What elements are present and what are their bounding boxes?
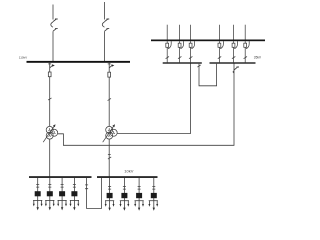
feeder F8 center stem (153, 201, 155, 208)
feeder F4 center stem (73, 200, 75, 207)
disconnector tick T2 column (108, 63, 111, 65)
wire T2 MV branch riser A to 35kV left bus (117, 64, 190, 134)
feeder F5 trident bar (105, 200, 114, 202)
feeder F7 arrowheads (134, 204, 136, 207)
transformer T2 LV winding (106, 132, 113, 139)
flag arrowhead T2 (111, 64, 114, 66)
feeder F7 side legs (135, 201, 143, 205)
wire incoming line L2 upper (104, 2, 106, 20)
feeder F6 breaker cartridge (121, 193, 127, 198)
breaker box QF2 (108, 72, 111, 77)
svg-text:35kV: 35kV (254, 56, 262, 60)
disconnector blade riser B (234, 67, 239, 70)
feeder F1 contact dashes (36, 184, 39, 187)
35kV bay 5 breaker box (232, 43, 235, 47)
35kV bay 5 feeder stub (233, 25, 235, 40)
feeder F3 side legs (58, 200, 66, 204)
disconnector QS4 blade bottom (105, 29, 110, 32)
feeder F5 contact dashes (108, 186, 111, 189)
feeder F2 breaker cartridge (47, 191, 53, 196)
wire incoming line L1 upper (52, 5, 54, 20)
CT tick T2 column (108, 98, 111, 100)
feeder F1 breaker cartridge (35, 191, 41, 196)
feeder F7 trident bar (135, 200, 144, 202)
wire T1 LV to 10kV bus (49, 139, 51, 176)
feeder F1 trident bar (33, 199, 42, 201)
svg-text:10kV: 10kV (124, 169, 133, 174)
disconnector ticks T2 LV line (108, 155, 111, 160)
35kV bay 3 breaker box (189, 43, 192, 47)
T2 winding marks (108, 128, 111, 131)
feeder F1 side legs (34, 200, 42, 204)
35kV bay 1 breaker box (166, 43, 169, 47)
feeder F3 wire (61, 178, 63, 201)
35kV bay 3 feeder stub (190, 25, 192, 40)
35kV bay 5 disconnector tick (232, 57, 235, 59)
feeder F2 contact dashes (48, 184, 51, 187)
feeder F3 breaker cartridge (59, 191, 65, 196)
35kV bay 4 breaker box (218, 43, 221, 47)
10kV bus tie ticks (85, 185, 88, 189)
feeder F2 arrowheads (45, 204, 47, 207)
35kV bay 2 bypass hook (180, 41, 183, 49)
10kV feeder group (33, 178, 158, 208)
35kV bay 2 feeder stub (179, 25, 181, 40)
35kV bay 6 breaker box (244, 43, 247, 47)
wire bus to breaker T1 (49, 63, 51, 72)
feeder F3 arrowheads (57, 204, 59, 207)
35kV bay 2 disconnector tick (178, 57, 181, 59)
feeder F8 side legs (149, 201, 157, 205)
feeder F3 trident bar (58, 199, 67, 201)
feeder F4 wire (73, 178, 75, 201)
CT tick T1 column (48, 98, 51, 100)
35kV bay 6 bypass hook (246, 41, 249, 49)
transformer T1 LV winding (46, 132, 53, 139)
10kV bus tie U loop (87, 178, 102, 209)
110kV busbar W1 (27, 61, 131, 63)
feeder F3 center stem (61, 200, 63, 207)
35kV lower right busbar W4 (210, 62, 256, 63)
feeder F8 arrowheads (148, 204, 150, 207)
feeder F8 trident bar (149, 200, 158, 202)
transformer T2 tap arrow (103, 126, 114, 143)
feeder F4 arrowheads (70, 204, 72, 207)
feeder F2 wire (49, 178, 51, 201)
35kV bay 4 bypass hook (220, 41, 223, 49)
transformer T2 MV winding (110, 129, 117, 136)
disconnector QS3 blade top (105, 19, 110, 22)
35kV bay 3 drop wire (190, 41, 192, 62)
transformer T1 MV winding (51, 129, 58, 136)
feeder F1 arrowheads (33, 204, 158, 211)
grounding flag T1 column (50, 65, 53, 68)
feeder F2 side legs (46, 200, 54, 204)
transformer T2 HV winding (106, 126, 113, 133)
feeder F8 contact dashes (152, 186, 155, 189)
feeder F4 trident bar (70, 199, 79, 201)
T1 winding marks (48, 128, 51, 131)
breaker box QF1 (48, 72, 51, 77)
35kV bay 4 drop wire (218, 41, 220, 62)
tap arrow head T1 (53, 124, 56, 127)
feeder F6 arrowheads (120, 204, 122, 207)
feeder F4 side legs (71, 200, 79, 204)
feeder F6 side legs (121, 201, 129, 205)
35kV bay 3 bypass hook (191, 41, 194, 49)
35kV bay 5 bypass hook (234, 41, 237, 49)
35kV bus tie U loop (199, 64, 217, 86)
wire breaker to transformer T2 (108, 77, 110, 126)
10kV right busbar W6 (97, 176, 158, 178)
breaker arc L1 (51, 22, 53, 27)
feeder F8 breaker cartridge (151, 193, 157, 198)
feeder F8 wire (153, 178, 155, 201)
arc riser B (232, 71, 235, 73)
35kV bus tie disconnector tick (197, 65, 200, 67)
disconnector QS2 blade bottom (53, 29, 58, 32)
35kV bay 5 drop wire (233, 41, 235, 62)
wire T2 LV to 10kV bus (108, 139, 110, 176)
35kV bay 2 drop wire (179, 41, 181, 62)
feeder F6 center stem (123, 201, 125, 208)
35kV lower left busbar W3 (163, 62, 202, 63)
35kV bay 4 disconnector tick (218, 57, 221, 59)
disconnector QS1 blade top (53, 19, 58, 22)
35kV bay 1 drop wire (166, 41, 168, 62)
grounding flag T2 column (109, 65, 112, 68)
feeder F7 breaker cartridge (136, 193, 142, 198)
feeder F5 breaker cartridge (107, 193, 113, 198)
feeder F2 center stem (49, 200, 51, 207)
wire breaker to transformer T1 (49, 77, 51, 127)
feeder F1 wire (37, 178, 39, 201)
35kV bay 1 bypass hook (168, 41, 171, 49)
feeder F5 arrowheads (105, 204, 107, 207)
flag arrowhead T1 (52, 64, 55, 66)
feeder F6 contact dashes (123, 186, 126, 189)
feeder F5 wire (109, 178, 111, 201)
transformer T1 HV winding (46, 126, 53, 133)
feeder F5 center stem (109, 201, 111, 208)
wire L1 to 110kV bus (52, 31, 54, 61)
feeder F7 center stem (138, 201, 140, 208)
35kV bay 4 feeder stub (218, 25, 220, 40)
breaker arc L2 (102, 22, 104, 27)
wire L2 to 110kV bus (104, 31, 106, 61)
35kV top busbar W2 (151, 40, 265, 42)
35kV bay 1 feeder stub (166, 25, 168, 40)
35kV bay 6 feeder stub (244, 25, 246, 40)
feeder F5 side legs (106, 201, 114, 205)
feeder F7 contact dashes (138, 186, 141, 189)
disconnector tick T1 column (48, 63, 51, 65)
wire bus to breaker T2 (108, 63, 110, 72)
feeder F4 breaker cartridge (71, 191, 77, 196)
35kV bay 1 disconnector tick (166, 57, 169, 59)
svg-text:110kV: 110kV (19, 55, 27, 59)
feeder F1 center stem (37, 200, 39, 207)
feeder F7 wire (138, 178, 140, 201)
transformer T1 tap arrow (43, 126, 54, 143)
feeder F6 trident bar (120, 200, 129, 202)
feeder F6 wire (123, 178, 125, 201)
35kV bay 2 breaker box (178, 43, 181, 47)
tap arrow head T2 (112, 124, 115, 127)
feeder F4 contact dashes (73, 184, 76, 187)
35kV bay 6 disconnector tick (244, 57, 247, 59)
35kV bay 6 drop wire (244, 41, 246, 62)
wire T1 MV branch riser B to 35kV right bus (58, 64, 234, 146)
feeder F3 contact dashes (61, 184, 64, 187)
10kV left busbar W5 (29, 176, 92, 178)
35kV bay 3 disconnector tick (189, 57, 192, 59)
feeder F2 trident bar (45, 199, 54, 201)
